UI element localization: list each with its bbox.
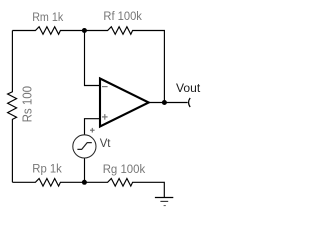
svg-text:Vout: Vout bbox=[176, 81, 201, 95]
svg-text:Rf 100k: Rf 100k bbox=[103, 9, 142, 23]
svg-text:Vt: Vt bbox=[100, 136, 111, 150]
svg-text:Rs 100: Rs 100 bbox=[20, 86, 35, 123]
svg-text:Rg 100k: Rg 100k bbox=[103, 162, 146, 176]
svg-text:Rp 1k: Rp 1k bbox=[32, 161, 62, 175]
svg-text:Rm 1k: Rm 1k bbox=[32, 10, 64, 24]
